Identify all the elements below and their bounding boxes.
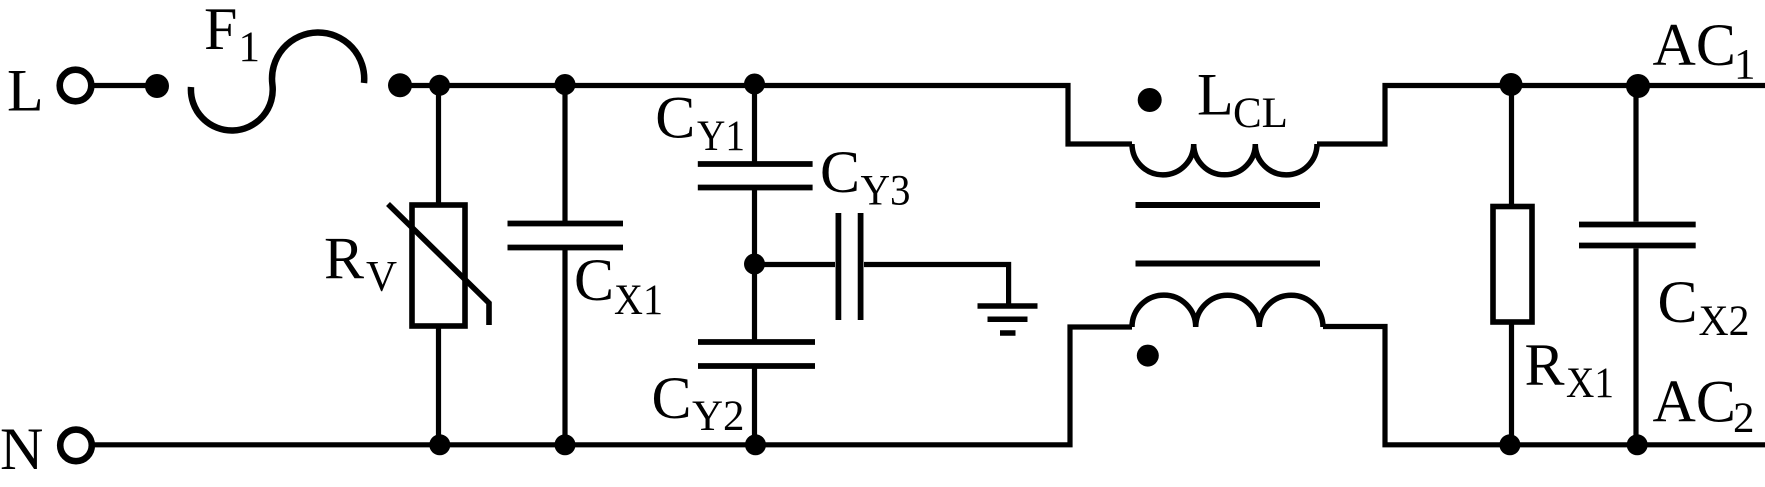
svg-text:C: C xyxy=(655,85,695,151)
node CX1 top xyxy=(555,74,576,95)
svg-text:C: C xyxy=(820,139,860,205)
resistor RX1 lead bottom xyxy=(1509,322,1514,445)
capacitor CX1 lead top xyxy=(562,86,567,222)
capacitor CY3 lead right xyxy=(864,265,1009,306)
node RV top junction xyxy=(429,75,450,96)
svg-text:1: 1 xyxy=(239,24,261,71)
ground bar 2 xyxy=(988,317,1028,323)
svg-text:C: C xyxy=(1658,269,1698,335)
node RX1 top xyxy=(1500,73,1523,96)
capacitor CX2 lead bottom xyxy=(1633,249,1638,445)
node CY mid xyxy=(744,254,765,275)
svg-text:Y1: Y1 xyxy=(697,113,745,160)
capacitor CY1 plate top xyxy=(698,161,813,167)
capacitor CY3 lead left xyxy=(755,262,836,267)
svg-text:CL: CL xyxy=(1233,90,1288,137)
wire top bus right xyxy=(1317,86,1765,145)
node CY2 bottom xyxy=(745,434,766,455)
inductor LCL core line 1 xyxy=(1136,202,1321,208)
polarity dot bottom xyxy=(1137,345,1159,367)
fuse F1 xyxy=(191,32,364,130)
capacitor CX1 plate top xyxy=(508,221,624,227)
svg-text:1: 1 xyxy=(1734,42,1756,89)
capacitor CX2 lead top xyxy=(1633,86,1638,222)
svg-text:C: C xyxy=(652,365,692,431)
node CY1 top xyxy=(744,74,765,95)
svg-text:R: R xyxy=(1525,332,1565,398)
node CX1 bottom xyxy=(555,434,576,455)
capacitor CY2 plate bottom xyxy=(698,363,815,369)
capacitor CY3 plate left xyxy=(836,213,842,320)
varistor RV diagonal xyxy=(388,204,489,325)
svg-text:C: C xyxy=(574,247,614,313)
polarity dot top xyxy=(1138,88,1162,112)
node CX2 top xyxy=(1626,74,1650,98)
svg-text:AC: AC xyxy=(1653,369,1736,435)
svg-text:Y2: Y2 xyxy=(692,393,745,440)
resistor RX1 lead top xyxy=(1509,86,1514,207)
svg-text:L: L xyxy=(7,58,44,124)
inductor LCL winding top xyxy=(1132,144,1317,175)
ground bar 1 xyxy=(978,303,1038,309)
svg-text:X1: X1 xyxy=(1566,360,1614,407)
capacitor CY1 plate bottom xyxy=(698,185,813,191)
inductor LCL winding bottom xyxy=(1132,295,1323,327)
inductor LCL core line 2 xyxy=(1136,261,1321,267)
capacitor CY2 plate top xyxy=(698,339,815,345)
capacitor CX2 plate bottom xyxy=(1579,243,1696,249)
svg-text:X1: X1 xyxy=(614,277,663,324)
svg-text:X2: X2 xyxy=(1699,298,1750,345)
capacitor CX1 lead bottom xyxy=(562,250,567,445)
varistor RV lead top xyxy=(436,86,441,206)
svg-text:N: N xyxy=(0,416,43,482)
svg-text:Y3: Y3 xyxy=(861,167,911,214)
capacitor CY2 lead top xyxy=(752,264,757,340)
varistor RV body xyxy=(412,205,465,326)
capacitor CX1 plate bottom xyxy=(508,245,624,251)
wire L lead xyxy=(94,83,158,88)
terminal N xyxy=(60,430,92,462)
varistor RV lead bottom xyxy=(436,326,441,445)
node after L xyxy=(145,74,169,98)
wire bottom bus right xyxy=(1323,327,1765,445)
node RX1 bottom xyxy=(1499,434,1520,455)
capacitor CY3 plate right xyxy=(858,213,864,320)
node RV bottom xyxy=(429,434,450,455)
node CX2 bottom xyxy=(1627,434,1648,455)
capacitor CX2 plate top xyxy=(1579,222,1696,228)
capacitor CY2 lead bottom xyxy=(752,369,757,445)
wire bottom bus left xyxy=(94,327,1132,445)
capacitor CY1 lead bottom xyxy=(752,190,757,264)
capacitor CY1 lead top xyxy=(752,86,757,162)
resistor RX1 body xyxy=(1493,207,1532,323)
wire top bus left xyxy=(400,86,1132,145)
svg-text:L: L xyxy=(1197,62,1234,128)
terminal L xyxy=(60,70,92,102)
svg-text:F: F xyxy=(204,0,237,62)
svg-text:V: V xyxy=(366,254,397,301)
ground bar 3 xyxy=(1000,330,1016,336)
svg-text:R: R xyxy=(324,226,364,292)
svg-text:AC: AC xyxy=(1653,12,1736,78)
node fuse output xyxy=(388,73,412,97)
svg-text:2: 2 xyxy=(1733,395,1755,442)
